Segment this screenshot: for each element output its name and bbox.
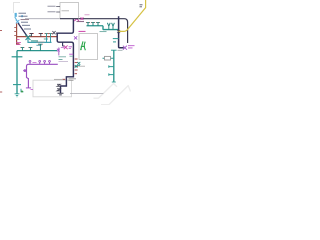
pin P1b top [39,62,41,64]
pin P2 top [44,62,46,64]
ground G1 [15,94,20,97]
junction X teal right [75,65,78,68]
net label icon (cyan) [15,13,17,17]
teal T-row wire [87,25,104,27]
label purple near staircase [69,53,73,55]
transistor Q2 [30,34,34,37]
symbol green in U4 [81,41,86,50]
label +3V3 (magenta) [16,40,21,45]
junction X teal [26,35,31,40]
pin dash r4 [75,69,78,71]
glyph Z1 [57,84,60,86]
edge tick left lower [0,91,2,93]
flag teal below U4 [77,62,80,66]
edge tick left [0,30,2,32]
junction X purple [123,46,127,50]
wire navy branch to label [63,42,65,46]
junction X magenta branch [64,45,68,49]
label right of U3 top [59,61,69,63]
label text row 5 [22,24,30,26]
label right of tick [118,49,123,51]
glyph Z2 [57,89,60,91]
teal stub m1 [109,65,114,67]
pin dash r5 [75,73,77,75]
label text row 6 [24,28,31,30]
pin P3 top [49,62,51,64]
label text row 2 [19,15,28,17]
watermark chevron 2 [101,86,131,105]
transistor Q5 [49,34,52,37]
label U3 [33,61,37,63]
teal horizontal main [17,50,57,52]
pin dash r1 [75,58,78,60]
wire teal stub up 2 [50,37,52,43]
pin tick b [14,31,16,33]
teal vertical lower-right [113,50,115,82]
transistor Q3 [39,34,43,37]
pin label U1-2 [48,11,56,13]
pin tick U1-2 [56,11,60,13]
net label purple [128,46,135,48]
label teal rows near staircase [59,56,74,59]
net label purple end [61,47,65,49]
wire long top [25,18,60,20]
purple foot [26,87,31,89]
wire teal elbow thick [103,26,119,30]
watermark chevron 1 [94,84,118,99]
pin tick c [14,35,16,37]
purple dash [31,88,34,90]
pin tick U1-1 [56,6,60,8]
label near yellow [140,5,143,7]
teal stub m2 [109,73,114,75]
wire brown horizontal [17,36,57,38]
junction X purple end [58,48,60,56]
box U5 (bottom middle) [33,80,72,97]
net label teal small [31,40,38,42]
pin dash r2 [75,62,78,64]
pin dash left [62,78,65,80]
junction X purple mid [74,36,77,39]
teal vertical left [16,51,18,94]
wire purple down [27,77,29,87]
green dot [21,91,23,93]
flag F2 [112,23,115,30]
transistor Q6 [86,23,89,26]
wire navy elbow [56,19,73,93]
transistor Q8 [96,23,99,26]
glyph teal L [21,89,24,92]
resistor R5 body [105,56,111,60]
box U4 (middle) [79,34,98,60]
label teal small2 [44,38,48,40]
junction X magenta [74,16,79,21]
label text row 4 [21,21,28,23]
big box U2 outline [79,19,128,43]
junction X cyan [16,20,20,24]
label value U3 [54,78,63,80]
teal stub right a [113,38,119,40]
net label pink [71,14,77,16]
wire faint top-left [14,3,21,14]
ref label U1 [62,10,70,12]
transistor Q7 [91,23,94,26]
wire teal stub up 1 [46,37,48,43]
bottom tick [112,81,116,83]
purple box U3 (partial outline) [27,64,58,78]
pin dash r3 [75,65,79,67]
pin tick a [14,27,16,29]
junction X dark [117,30,120,33]
transistor Q10 [29,48,32,51]
net label GND (teal) [36,44,41,46]
transistor Q9 [21,48,24,51]
net label branch [69,47,72,49]
wire cyan diagonal [15,17,18,23]
wire diagonal navy [18,23,28,38]
label pink above wire [85,14,90,16]
wire yellow [119,0,146,31]
wire teal bus [28,38,52,43]
top tick [111,49,117,51]
label magenta U4 [79,30,86,32]
wire R-vertical (brown) [17,24,20,44]
label text row 1 [19,12,27,14]
wire navy right vertical [119,16,124,47]
capacitor plate tick [12,56,23,58]
flag F1 [107,23,110,30]
pin label U1-1 [48,5,56,7]
transistor Q4 [45,34,48,37]
teal stub right b [113,41,116,43]
ground foot [58,93,64,95]
junction X magenta small [81,17,84,20]
label R text [69,79,77,81]
thin gray wire bottom [70,93,103,95]
net label dot [21,15,23,17]
symbol green dot [81,49,82,50]
pin P1 top [29,62,31,64]
box U1 (top) [60,3,79,19]
label teal right of U4 [100,31,107,33]
resistor R5 stub [103,57,114,59]
label below junction [77,21,85,23]
label above Q11 [37,41,45,43]
capacitor C1 plate1 [13,84,21,86]
transistor Q11 tall [38,44,42,50]
wire over box1 bottom [60,18,79,20]
junction X orange [52,31,55,34]
label text row 3 [21,19,30,21]
label gray right [79,65,85,67]
pin P4 left [23,70,26,72]
